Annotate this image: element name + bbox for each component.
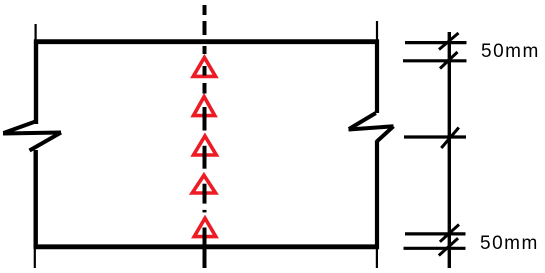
centerline dash segment 7 (203, 146, 207, 169)
dimension tick slash bottom 2 (439, 238, 458, 255)
centerline dash segment 9 (203, 210, 207, 213)
weld pass triangle 3 (194, 136, 217, 155)
dimension extension line bottom 1 (405, 232, 466, 235)
specimen plate left edge lower segment (34, 150, 38, 249)
dimension vertical line (448, 32, 451, 268)
specimen plate left edge upper segment (34, 40, 38, 125)
centerline dash segment 4 (203, 66, 207, 76)
right break line stroke upper diagonal (349, 113, 376, 129)
bottom-right corner extension tick (376, 248, 378, 268)
weld pass triangle 4 (192, 175, 215, 193)
top-left corner extension tick (34, 24, 36, 40)
bottom-left corner extension tick (34, 248, 36, 268)
dimension label 50mm bottom (480, 233, 539, 255)
centerline dash segment 6 (203, 107, 207, 131)
right break line stroke lower diagonal (377, 126, 394, 141)
dimension tick slash middle (441, 128, 459, 149)
centerline dash segment 5 (203, 83, 207, 94)
specimen plate right edge lower segment (375, 141, 379, 250)
weld pass triangle 2 (193, 97, 214, 116)
centerline dash segment 10 (203, 228, 207, 269)
specimen plate right edge upper segment (375, 40, 379, 114)
dimension tick slash top 2 (440, 52, 458, 69)
dimension tick slash top 1 (439, 33, 459, 50)
specimen plate bottom edge (34, 244, 379, 249)
specimen plate top edge (34, 39, 379, 44)
dimension extension line middle (404, 135, 466, 138)
centerline dash segment 8 (203, 184, 207, 204)
right break line stroke middle horizontal (349, 126, 394, 129)
dimension extension line top 2 (403, 59, 467, 62)
dimension extension line top 1 (405, 41, 467, 44)
dimension tick slash bottom 1 (440, 225, 459, 242)
weld pass triangle 1 (193, 57, 215, 76)
centerline dash segment 3 (203, 46, 207, 54)
dimension label 50mm top (481, 41, 540, 63)
left break line stroke lower diagonal (30, 133, 62, 151)
dimension extension line bottom 2 (404, 247, 466, 250)
centerline dash segment 2 (203, 21, 207, 35)
weld pass triangle 5 (194, 218, 216, 236)
left break line stroke upper diagonal (4, 122, 36, 134)
left break line stroke middle horizontal (3, 133, 61, 134)
centerline dash segment 1 (203, 5, 207, 15)
top-right corner extension tick (376, 21, 378, 40)
